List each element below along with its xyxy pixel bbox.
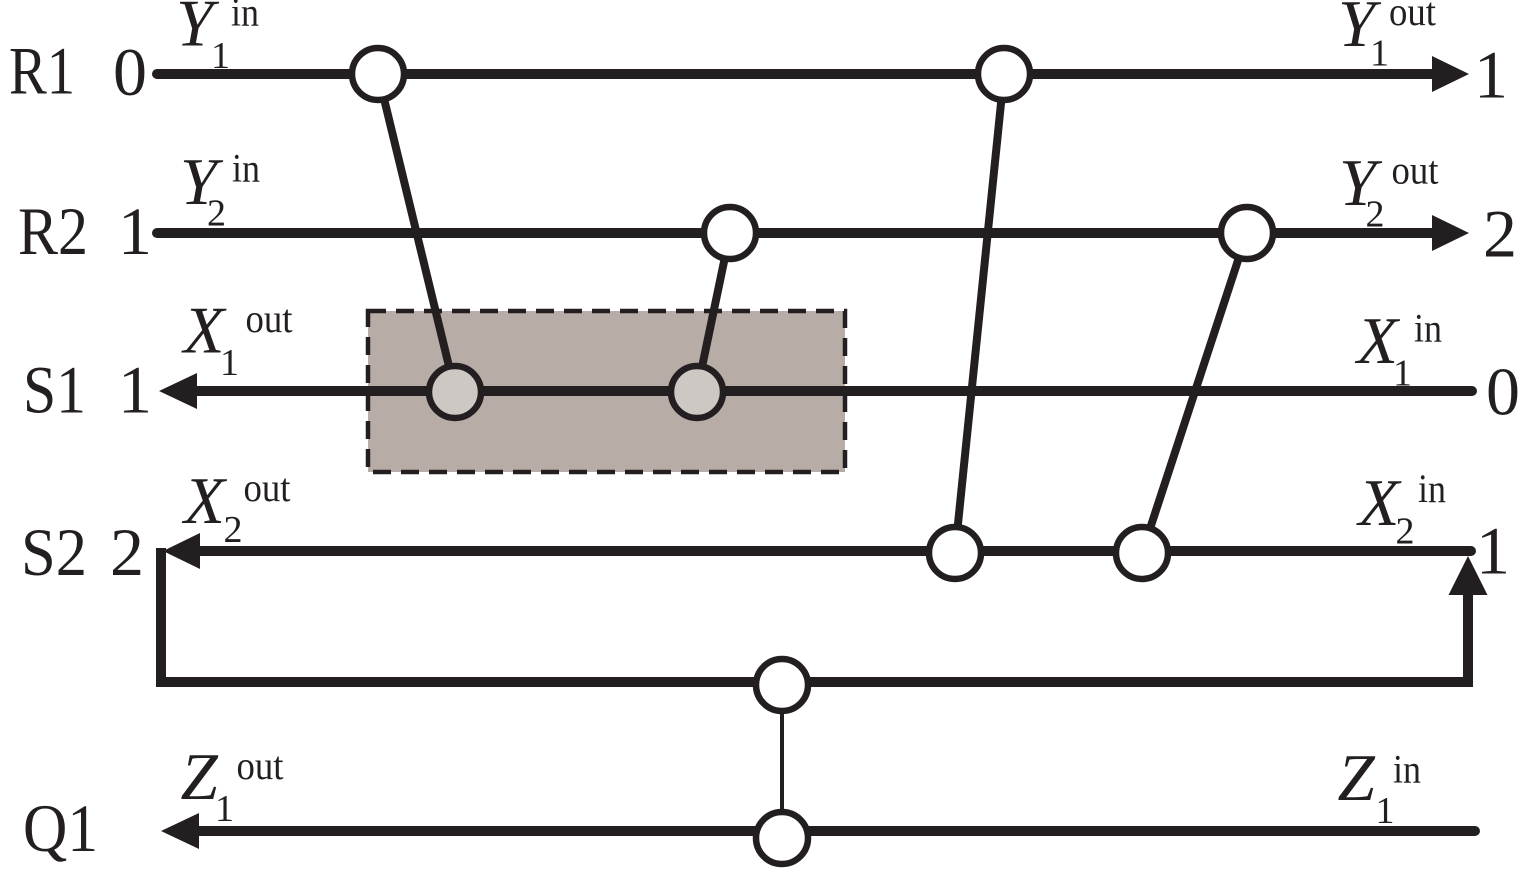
svg-text:S2: S2 — [21, 514, 87, 590]
svg-text:Q1: Q1 — [23, 790, 98, 866]
link R1 node to S1 node — [378, 74, 455, 391]
svg-text:in: in — [231, 0, 259, 35]
svg-text:0: 0 — [1486, 354, 1520, 430]
svg-text:2: 2 — [1396, 511, 1415, 553]
link R2 node to S2 node — [1142, 233, 1247, 553]
label Y1 in — [176, 0, 259, 77]
label X1 in — [1354, 304, 1442, 395]
feedback loop wire from S2 left down, across, and up to S2 right — [161, 548, 1468, 682]
node on R2 right — [1221, 207, 1273, 259]
arrowhead S2 out (left) — [163, 533, 200, 569]
label Z1 out — [181, 740, 284, 830]
svg-text:out: out — [246, 296, 293, 341]
svg-text:in: in — [232, 146, 260, 191]
arrowhead Q1 out (left) — [161, 813, 199, 849]
svg-text:Z: Z — [181, 740, 219, 814]
svg-text:1: 1 — [211, 35, 230, 77]
node on S2 left — [929, 527, 981, 579]
link R1 node to S2 node — [955, 74, 1004, 553]
wire R1 — [157, 69, 1440, 79]
label Y1 out — [1338, 0, 1436, 75]
label Y2 out — [1339, 146, 1439, 236]
svg-text:in: in — [1393, 747, 1421, 792]
label X2 in — [1356, 466, 1447, 553]
svg-text:S1: S1 — [23, 352, 86, 428]
wire Q1 — [192, 826, 1475, 836]
wire R2 — [157, 228, 1440, 238]
label Y2 in — [180, 145, 260, 235]
shaded dashed measurement box — [368, 311, 845, 472]
svg-text:1: 1 — [1370, 33, 1389, 75]
svg-text:1: 1 — [118, 193, 152, 269]
node on R2 left — [704, 207, 756, 259]
label Z1 in — [1338, 741, 1422, 832]
svg-text:1: 1 — [1376, 790, 1395, 832]
label X2 out — [181, 464, 291, 551]
svg-text:X: X — [181, 464, 228, 538]
svg-text:1: 1 — [1393, 353, 1412, 395]
svg-text:out: out — [237, 743, 284, 788]
svg-text:1: 1 — [1474, 37, 1508, 113]
svg-text:Z: Z — [1338, 741, 1376, 815]
node on S2 right — [1116, 527, 1168, 579]
svg-text:in: in — [1418, 466, 1446, 511]
arrowhead feedback up into S2 in — [1449, 556, 1488, 595]
svg-text:2: 2 — [207, 193, 226, 235]
svg-text:1: 1 — [215, 788, 234, 830]
svg-text:2: 2 — [110, 514, 144, 590]
link R2 node to S1 node — [697, 233, 730, 391]
node on R1 left — [352, 48, 404, 100]
svg-text:1: 1 — [118, 352, 152, 428]
svg-text:0: 0 — [113, 34, 147, 110]
svg-text:2: 2 — [1366, 194, 1385, 236]
svg-text:1: 1 — [1476, 513, 1510, 589]
gray node on S1 right — [671, 366, 723, 418]
arrowhead S1 out (left) — [159, 373, 197, 409]
label X1 out — [181, 294, 293, 385]
node on Q1 — [756, 812, 808, 864]
svg-text:2: 2 — [224, 509, 243, 551]
node on loop — [756, 659, 808, 711]
gray node on S1 left — [429, 366, 481, 418]
link loop node to Q1 node — [780, 685, 784, 838]
svg-text:out: out — [244, 465, 291, 510]
svg-text:R1: R1 — [9, 33, 75, 109]
svg-text:out: out — [1389, 0, 1436, 34]
svg-text:R2: R2 — [18, 193, 88, 269]
svg-text:out: out — [1392, 148, 1439, 193]
svg-text:2: 2 — [1483, 196, 1517, 272]
wire S1 — [192, 386, 1472, 396]
arrowhead R2 out — [1432, 215, 1469, 251]
node on R1 right — [978, 48, 1030, 100]
arrowhead R1 out — [1432, 56, 1469, 92]
wire S2 — [196, 546, 1471, 556]
svg-text:in: in — [1414, 306, 1442, 351]
svg-text:1: 1 — [220, 342, 239, 384]
